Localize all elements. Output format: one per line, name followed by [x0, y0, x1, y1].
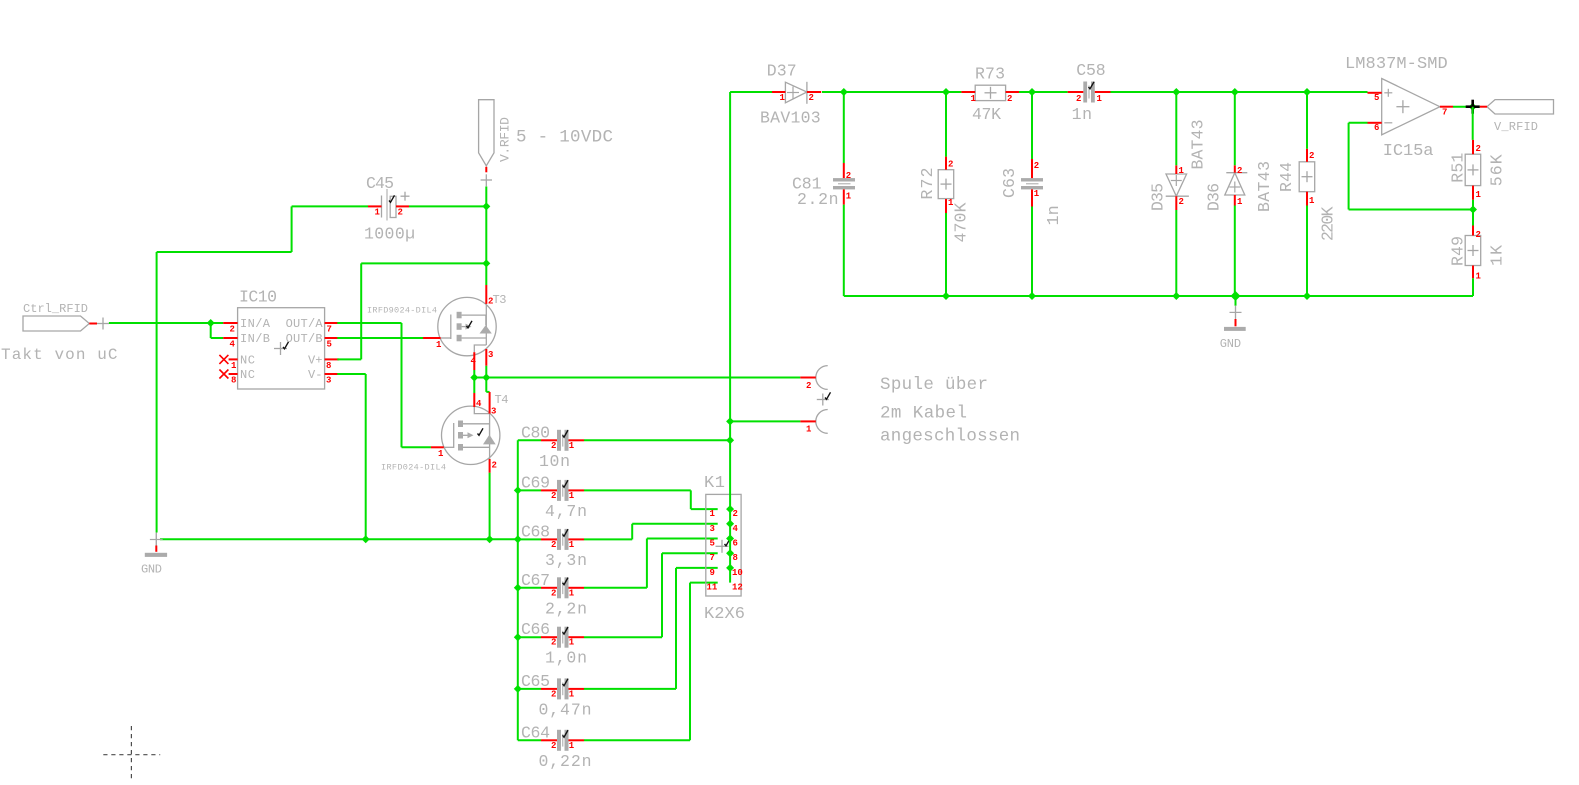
C66 pin 2 stub	[541, 636, 557, 638]
svg-text:1: 1	[1237, 197, 1243, 207]
svg-text:Takt von uC: Takt von uC	[1, 346, 118, 364]
svg-text:GND: GND	[141, 563, 162, 577]
wire R44 top to rail	[1306, 92, 1308, 149]
svg-text:1: 1	[1097, 94, 1103, 104]
svg-text:2: 2	[551, 741, 556, 751]
svg-text:4,7n: 4,7n	[545, 502, 587, 521]
svg-text:GND: GND	[1220, 337, 1241, 351]
wire Ctrl_RFID to IC10 IN/A	[109, 322, 223, 324]
svg-text:R72: R72	[918, 168, 937, 200]
svg-text:IC10: IC10	[239, 288, 277, 307]
wire R72 top to rail	[945, 92, 947, 157]
wire C63 bottom to GND rail	[1031, 207, 1033, 297]
wire feedback node to R49	[1472, 210, 1474, 226]
op-amp IC15a LM837M-SMD	[1382, 79, 1440, 162]
svg-text:1n: 1n	[1072, 105, 1092, 124]
transistor T4 IRFD024 N-channel MOSFET	[442, 393, 509, 464]
wire R49 bottom to GND rail	[1472, 278, 1474, 296]
C81 pin 2 stub	[843, 163, 845, 178]
svg-text:1: 1	[710, 509, 716, 519]
wire top rail: main vertical corner to D37	[730, 91, 772, 93]
T4 pin 2 stub (source bottom)	[489, 459, 491, 473]
svg-text:V_RFID: V_RFID	[1494, 120, 1538, 134]
svg-text:11: 11	[707, 583, 718, 593]
svg-text:7: 7	[710, 553, 715, 563]
svg-text:IC15a: IC15a	[1383, 142, 1434, 161]
junction main vertical at K1 row 4	[726, 549, 734, 557]
IC10 pin 4 IN/B stub	[223, 337, 237, 339]
svg-text:BAT43: BAT43	[1255, 161, 1274, 212]
svg-text:1: 1	[780, 93, 786, 103]
junction GND rail / D35	[1172, 292, 1180, 300]
svg-text:5: 5	[710, 539, 715, 549]
junction top rail / R72	[942, 88, 950, 96]
sheet origin dashed cross	[103, 726, 160, 782]
svg-text:D35: D35	[1149, 183, 1168, 211]
V.RFID pin cross	[481, 174, 492, 186]
wire ladder common to C65	[518, 688, 541, 690]
svg-text:220K: 220K	[1318, 206, 1337, 241]
svg-text:3: 3	[488, 350, 493, 360]
wire V.RFID vertical down to T3 source	[485, 187, 487, 286]
wire output pin7 to V_RFID	[1453, 106, 1480, 108]
wire D36 bottom to GND rail	[1234, 206, 1236, 297]
C68 pin 2 stub	[541, 538, 557, 540]
wire R44 bottom to GND rail	[1306, 206, 1308, 297]
svg-text:2: 2	[488, 297, 493, 307]
svg-text:1: 1	[1179, 166, 1185, 176]
wire C68 pin1 to K1 row	[584, 524, 718, 540]
wire D36 top to rail	[1234, 92, 1236, 165]
svg-text:2: 2	[230, 325, 235, 335]
svg-text:V.RFID: V.RFID	[498, 117, 513, 162]
svg-text:R73: R73	[975, 65, 1005, 84]
wire drain rail to coil pin 2	[474, 377, 800, 379]
note text: Spule über 2m Kabel angeschlossen	[880, 375, 1020, 446]
T3 pin 4 stub (drain)	[473, 352, 475, 370]
IC10 pin 5 OUT/B stub	[325, 337, 339, 339]
svg-text:12: 12	[732, 583, 743, 593]
IC10 pin 3 V- stub	[325, 373, 339, 375]
junction main vertical at K1 row 1	[726, 505, 734, 513]
junction ladder at C65	[514, 685, 522, 693]
wire C69 pin1 to K1 row	[584, 490, 718, 509]
svg-text:1: 1	[569, 491, 575, 501]
capacitor C64 0,22n	[521, 723, 569, 751]
IC10 pin 2 IN/A stub	[223, 322, 237, 324]
svg-text:2: 2	[1309, 151, 1314, 161]
coil pin 1 (connector half-circle)	[800, 410, 827, 435]
svg-text:5: 5	[1374, 93, 1379, 103]
junction GND / V- branch	[362, 535, 370, 543]
wire ladder common to C69	[518, 489, 541, 491]
svg-text:4: 4	[230, 340, 236, 350]
svg-text:2m Kabel: 2m Kabel	[880, 404, 967, 424]
junction top rail / R44	[1303, 88, 1311, 96]
svg-text:V-: V-	[308, 368, 323, 382]
resistor R73 47K	[975, 65, 1006, 101]
svg-text:4: 4	[733, 524, 739, 534]
C68 pin 1 stub	[569, 538, 585, 540]
wire C81 bottom to GND rail	[844, 205, 946, 296]
C80 pin 1 stub	[569, 439, 585, 441]
svg-text:3: 3	[710, 524, 715, 534]
C63 pin 2 stub	[1031, 159, 1033, 178]
svg-text:2: 2	[1034, 161, 1039, 171]
svg-text:7: 7	[1442, 108, 1447, 118]
svg-text:8: 8	[733, 553, 738, 563]
junction V.RFID / V+ branch	[482, 259, 490, 267]
svg-text:2: 2	[551, 491, 556, 501]
svg-text:1: 1	[1476, 272, 1482, 282]
IC15a pin 6 stub (inverting)	[1368, 122, 1382, 124]
svg-text:1: 1	[948, 198, 954, 208]
diode D36 BAT43	[1225, 173, 1248, 195]
R72 pin 1 stub	[945, 199, 947, 213]
svg-text:T3: T3	[493, 293, 507, 307]
svg-text:1n: 1n	[1044, 205, 1063, 225]
capacitor C69 4,7n	[521, 473, 569, 501]
C66 pin 1 stub	[569, 636, 585, 638]
wire C65 pin1 to K1 row	[584, 568, 718, 689]
IC10 pin 8 NC stub with X mark	[219, 370, 237, 379]
svg-text:1: 1	[1309, 196, 1315, 206]
T4 pin 4 stub	[473, 393, 475, 407]
capacitor C65 0,47n	[521, 672, 569, 700]
svg-text:1: 1	[569, 441, 575, 451]
svg-text:K2X6: K2X6	[704, 605, 745, 624]
R44 pin 2 stub	[1306, 149, 1308, 162]
svg-text:Ctrl_RFID: Ctrl_RFID	[23, 302, 88, 316]
wire C45 pin2 to V.RFID net	[409, 205, 486, 207]
wire ladder common to C64	[518, 739, 541, 741]
svg-text:1000µ: 1000µ	[364, 225, 415, 244]
junction feedback node	[1469, 206, 1477, 214]
wire GND: C45 pin1 to left rail	[157, 206, 368, 532]
svg-text:9: 9	[710, 568, 715, 578]
svg-text:1: 1	[436, 340, 442, 350]
wire top rail R73 to C58	[1019, 91, 1068, 93]
resistor R44 220K	[1299, 162, 1315, 192]
svg-text:1: 1	[846, 192, 852, 202]
svg-text:3: 3	[326, 376, 331, 386]
C63 pin 1 stub	[1031, 189, 1033, 206]
junction output node	[1469, 103, 1477, 111]
svg-text:angeschlossen: angeschlossen	[880, 426, 1020, 446]
R49 pin 2 stub	[1472, 226, 1474, 236]
wire top rail D37 to R73	[822, 91, 961, 93]
svg-text:2: 2	[551, 638, 556, 648]
wire GND bottom rail right section	[946, 295, 1473, 297]
T3 pin 3 stub (drain)	[485, 349, 487, 366]
svg-text:2: 2	[733, 509, 738, 519]
capacitor C68 3,3n	[521, 522, 569, 550]
C65 pin 1 stub	[569, 688, 585, 690]
svg-text:0,22n: 0,22n	[539, 752, 592, 771]
C64 pin 1 stub	[569, 739, 585, 741]
wire V.RFID branch to IC10 V+	[337, 263, 486, 359]
svg-text:2: 2	[809, 93, 814, 103]
svg-text:5 - 10VDC: 5 - 10VDC	[516, 128, 613, 148]
svg-text:0,47n: 0,47n	[539, 700, 592, 719]
svg-text:56K: 56K	[1488, 154, 1507, 186]
svg-text:1: 1	[375, 208, 381, 218]
svg-text:1: 1	[569, 588, 575, 598]
C80 pin 2 stub	[541, 439, 557, 441]
junction GND rail / GND symbol	[1231, 291, 1241, 301]
V_RFID pin stub	[1480, 106, 1487, 108]
svg-text:D36: D36	[1205, 183, 1224, 211]
svg-text:2: 2	[1237, 166, 1242, 176]
svg-text:R49: R49	[1449, 236, 1468, 266]
junction GND rail / C63	[1028, 292, 1036, 300]
C81 pin 1 stub	[843, 189, 845, 204]
C45 pin 2 stub	[396, 205, 409, 207]
svg-text:NC: NC	[240, 368, 255, 382]
wire drain node T3 pin4 down	[473, 370, 475, 378]
svg-text:NC: NC	[240, 354, 255, 368]
svg-text:4: 4	[471, 357, 477, 367]
svg-text:C63: C63	[1000, 168, 1019, 198]
wire feedback: pin 6 to node	[1349, 123, 1473, 210]
svg-text:V+: V+	[308, 354, 323, 368]
svg-text:BAT43: BAT43	[1189, 120, 1208, 170]
svg-text:2: 2	[1476, 144, 1481, 154]
svg-text:10: 10	[732, 568, 743, 578]
junction top rail / D36	[1231, 88, 1239, 96]
wire D35 top to rail	[1175, 92, 1177, 165]
junction ladder at C66	[514, 633, 522, 641]
D37 pin 2 stub	[807, 91, 821, 93]
D37 pin 1 stub	[772, 91, 785, 93]
wire GND: IC10 V- branch	[337, 374, 365, 539]
wire C64 pin1 to K1 row	[584, 583, 718, 741]
resistor R51 56K	[1465, 154, 1481, 185]
svg-text:2: 2	[551, 588, 556, 598]
resistor R49 1K	[1465, 236, 1481, 266]
svg-text:2: 2	[492, 461, 497, 471]
wire main vertical to coil pin 1	[730, 420, 800, 422]
wire T4 source to GND rail	[489, 473, 491, 540]
net label V_RFID (output flag)	[1487, 100, 1554, 134]
svg-text:2.2n: 2.2n	[797, 190, 839, 209]
svg-text:1: 1	[1476, 190, 1482, 200]
svg-text:R51: R51	[1449, 153, 1468, 183]
svg-text:Spule über: Spule über	[880, 375, 988, 395]
R73 pin 1 stub	[961, 91, 975, 93]
svg-text:LM837M-SMD: LM837M-SMD	[1345, 55, 1448, 74]
pin cross Ctrl_RFID	[97, 323, 109, 325]
junction on Ctrl_RFID net	[207, 319, 215, 327]
wire GND bottom rail left section	[160, 538, 518, 540]
svg-text:C45: C45	[366, 174, 394, 193]
wire top rail C58 to op-amp pin 5	[1111, 91, 1368, 93]
junction drain node B	[482, 374, 490, 382]
svg-text:1: 1	[569, 689, 575, 699]
svg-text:2: 2	[398, 208, 403, 218]
junction main vertical at K1 row 3	[726, 535, 734, 543]
svg-text:D37: D37	[767, 62, 797, 81]
svg-text:1,0n: 1,0n	[545, 649, 587, 668]
svg-text:2: 2	[1076, 94, 1081, 104]
IC15a pin 5 stub (non-inverting)	[1368, 92, 1382, 94]
ground symbol GND (left)	[141, 533, 167, 577]
connector K1 (K2X6 pin header)	[704, 474, 741, 596]
junction top rail / D35	[1172, 88, 1180, 96]
svg-text:3: 3	[491, 407, 496, 417]
R44 pin 1 stub	[1306, 192, 1308, 206]
T3 pin 1 stub (gate)	[423, 337, 441, 339]
capacitor C81 2.2n	[792, 175, 855, 194]
transistor T3 IRFD9024 P-channel MOSFET	[438, 293, 507, 356]
svg-text:1: 1	[231, 361, 237, 371]
svg-text:1: 1	[569, 741, 575, 751]
wire OUT/A to T4 gate	[337, 323, 431, 447]
svg-text:6: 6	[1374, 123, 1379, 133]
IC15a pin 7 stub (output)	[1440, 106, 1453, 108]
svg-text:2: 2	[948, 160, 953, 170]
R73 pin 2 stub	[1006, 91, 1019, 93]
svg-text:IN/A: IN/A	[240, 317, 271, 331]
wire drain node T3 pin3 down	[485, 366, 487, 378]
D36 pin 1 stub	[1234, 195, 1236, 206]
wire D35 bottom to GND rail	[1175, 210, 1177, 296]
R49 pin 1 stub	[1472, 266, 1474, 279]
R51 pin 1 stub	[1472, 186, 1474, 200]
IC10 pin 7 OUT/A stub	[325, 322, 339, 324]
svg-text:2: 2	[846, 171, 851, 181]
capacitor C45 1000u polarized	[366, 174, 410, 221]
svg-text:2: 2	[1179, 197, 1184, 207]
wire R51 bottom to feedback node	[1472, 200, 1474, 210]
svg-text:K1: K1	[704, 474, 725, 493]
diode D37 BAV103	[767, 62, 807, 104]
capacitor C66 1,0n	[521, 620, 569, 648]
svg-text:47K: 47K	[972, 105, 1001, 124]
C69 pin 1 stub	[569, 489, 585, 491]
svg-text:OUT/A: OUT/A	[286, 317, 324, 331]
C64 pin 2 stub	[541, 739, 557, 741]
driver IC U IC10 (dual MOSFET driver)	[238, 288, 325, 390]
wire C80 pin1 to main vertical	[584, 439, 730, 441]
svg-text:7: 7	[327, 325, 332, 335]
svg-text:2: 2	[551, 540, 556, 550]
supply flag V.RFID	[479, 100, 513, 166]
junction top rail / C63	[1028, 88, 1036, 96]
C69 pin 2 stub	[541, 489, 557, 491]
svg-text:5: 5	[327, 340, 332, 350]
svg-text:1: 1	[438, 449, 444, 459]
capacitor C67 2,2n	[521, 571, 569, 599]
C65 pin 2 stub	[541, 688, 557, 690]
wire ladder common to C66	[518, 636, 541, 638]
svg-text:2: 2	[806, 381, 811, 391]
svg-text:8: 8	[326, 361, 331, 371]
svg-text:2,2n: 2,2n	[545, 599, 587, 618]
svg-text:2: 2	[551, 689, 556, 699]
svg-text:470K: 470K	[952, 202, 971, 242]
D35 pin 1 stub	[1175, 165, 1177, 174]
junction main vertical / coil pin 1	[726, 417, 734, 425]
D36 pin 2 stub	[1234, 165, 1236, 172]
svg-text:1: 1	[1034, 189, 1040, 199]
svg-text:OUT/B: OUT/B	[286, 332, 323, 346]
wire output down to R51	[1472, 107, 1474, 140]
svg-text:1: 1	[971, 94, 977, 104]
C58 pin 1 stub	[1095, 91, 1111, 93]
C45 pin 1 stub	[368, 205, 382, 207]
svg-text:IRFD9024-DIL4: IRFD9024-DIL4	[367, 306, 437, 316]
svg-text:8: 8	[231, 376, 236, 386]
svg-text:2: 2	[1476, 230, 1481, 240]
svg-text:IRFD024-DIL4: IRFD024-DIL4	[381, 463, 446, 473]
svg-text:R44: R44	[1277, 162, 1296, 192]
junction main vertical / C80	[726, 436, 734, 444]
svg-text:1: 1	[806, 425, 812, 435]
IC10 pin 1 NC stub with X mark	[219, 355, 237, 364]
wire main vertical: D37 net down to K1 pin 12	[729, 92, 731, 583]
wire R72 bottom to GND rail	[945, 213, 947, 296]
svg-text:1: 1	[569, 540, 575, 550]
wire drain node to T4 pin4	[473, 378, 475, 394]
svg-text:1K: 1K	[1488, 245, 1507, 266]
resistor R72 470K	[938, 170, 954, 199]
junction GND rail / T4 source	[486, 535, 494, 543]
capacitor C63 1n	[1021, 178, 1043, 189]
V.RFID pin stub	[485, 167, 487, 173]
capacitor C58 1n	[1076, 61, 1106, 103]
junction top rail / C81	[840, 88, 848, 96]
svg-text:IN/B: IN/B	[240, 332, 270, 346]
junction main vertical at K1 row 2	[726, 520, 734, 528]
capacitor C80 10n	[521, 423, 569, 451]
net label Ctrl_RFID (input flag)	[23, 302, 89, 331]
wire capacitor-ladder common vertical (GND side)	[518, 440, 541, 740]
svg-text:T4: T4	[495, 393, 509, 407]
C67 pin 2 stub	[541, 587, 557, 589]
junction GND rail / R44	[1303, 292, 1311, 300]
svg-text:1: 1	[569, 638, 575, 648]
svg-text:2: 2	[551, 441, 556, 451]
junction ladder at C67	[514, 584, 522, 592]
R72 pin 2 stub	[945, 157, 947, 170]
wire drain node jog to T4 pin3	[486, 378, 489, 392]
coil pin 2 (connector half-circle)	[800, 366, 827, 391]
junction V.RFID / C45	[482, 202, 490, 210]
svg-text:C58: C58	[1076, 61, 1106, 80]
D35 pin 2 stub	[1175, 196, 1177, 210]
junction main vertical at K1 row 5	[726, 564, 734, 572]
C67 pin 1 stub	[569, 587, 585, 589]
svg-text:3,3n: 3,3n	[545, 551, 587, 570]
junction ladder at C69	[514, 486, 522, 494]
node V_RFID black cross	[1466, 100, 1480, 114]
R51 pin 2 stub	[1472, 140, 1474, 154]
T4 pin 1 stub (gate)	[431, 446, 444, 448]
T3 pin 2 stub (source top)	[485, 285, 487, 304]
wire OUT/B to T3 gate	[337, 337, 423, 339]
junction GND rail / capacitor ladder	[514, 535, 522, 543]
junction GND rail / R72	[942, 292, 950, 300]
wire C66 pin1 to K1 row	[584, 553, 718, 637]
T4 pin 3 stub	[489, 392, 491, 414]
pin stub Ctrl_RFID	[89, 323, 97, 325]
wire C67 pin1 to K1 row	[584, 539, 718, 588]
svg-text:2: 2	[1007, 94, 1012, 104]
wire Ctrl_RFID branch to IN/B	[211, 323, 224, 338]
wire ladder common to C67	[518, 587, 541, 589]
svg-text:6: 6	[733, 539, 738, 549]
